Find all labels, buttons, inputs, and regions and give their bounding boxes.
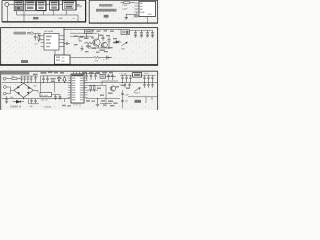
title text <box>1 72 29 75</box>
pin 2 wire <box>135 5 140 7</box>
mid rail wire <box>70 32 97 34</box>
svg-text:760s: 760s <box>121 48 125 50</box>
capacitor C1 <box>34 33 37 40</box>
transistor Q3 <box>110 86 115 91</box>
svg-text:0-10K: 0-10K <box>122 8 128 10</box>
junction dots <box>21 73 145 99</box>
wire down into U7 <box>54 51 56 56</box>
wire vertical mid <box>54 83 56 93</box>
resistor R3 <box>84 42 95 44</box>
wire U2 down <box>23 11 25 22</box>
IC U5 (DS1820) <box>139 1 156 16</box>
wire U1 down <box>16 11 18 15</box>
wire stub right2 <box>151 97 153 100</box>
svg-text:GND: GND <box>58 18 63 20</box>
MCU right pins <box>84 78 88 97</box>
caption figure number <box>104 15 109 18</box>
label cluster <box>84 35 113 51</box>
svg-text:VDD: VDD <box>148 14 153 16</box>
block U1 (preamp) <box>14 1 23 11</box>
wire segs cluster2 <box>70 36 109 49</box>
label cluster mid <box>51 78 67 83</box>
capacitor C35 <box>27 76 29 83</box>
capacitor C45 <box>151 75 153 82</box>
U6 pin wires right <box>59 36 64 47</box>
wire X2 down <box>86 33 88 38</box>
wire seg <box>106 75 116 77</box>
diode D6 <box>114 41 122 44</box>
wire mic down <box>6 6 8 21</box>
regulator U8 7805 <box>40 92 52 97</box>
svg-text:VMI: VMI <box>61 61 65 63</box>
wire J2b to bridge <box>6 90 10 93</box>
component X2 box on rail <box>85 30 93 34</box>
wire lower right <box>128 96 158 98</box>
capacitor bank C6 <box>140 30 143 38</box>
svg-text:Mx: Mx <box>30 106 33 108</box>
wire J3 right <box>6 78 12 80</box>
wire to ground <box>126 12 137 17</box>
caption of middle panel <box>21 60 28 63</box>
caption text line 2 <box>96 9 117 12</box>
capacitor C14 <box>90 74 93 80</box>
bridge rectifier D1-D4 <box>14 83 33 97</box>
diode D4 <box>27 92 30 95</box>
capacitor C46 under J2 <box>5 96 8 104</box>
pin 1 wire <box>135 2 140 4</box>
pin 4 wire <box>135 11 140 13</box>
adjust arrow 2 <box>134 88 140 92</box>
crystal Y1 <box>100 75 106 79</box>
resistor R7 <box>90 86 92 92</box>
capacitor C31 <box>121 94 124 95</box>
wire top row <box>21 75 39 77</box>
svg-text:74DLS: 74DLS <box>134 93 141 95</box>
svg-text:220: 220 <box>34 85 37 87</box>
label specks cluster2 <box>74 30 117 53</box>
panel border (middle) <box>1 28 158 65</box>
main rail <box>2 82 158 84</box>
block U2 <box>25 1 35 11</box>
thick bottom rule of middle panel <box>0 64 158 66</box>
wire stub <box>28 99 30 104</box>
wire U3-U4 <box>46 3 49 5</box>
capacitor C33 <box>20 76 22 83</box>
svg-text:1.0k: 1.0k <box>11 76 15 78</box>
transistor Q1 <box>93 33 100 48</box>
label speck <box>33 74 38 76</box>
MCU left pins <box>68 78 71 97</box>
wire U5 down <box>65 10 67 15</box>
label specks bottom <box>108 101 118 104</box>
capacitor C15 <box>107 74 110 80</box>
top rail wire <box>64 29 121 31</box>
arrow symbol <box>27 32 34 35</box>
adjust arrow <box>122 42 128 46</box>
bottom rail right <box>86 98 120 100</box>
capacitor C2 <box>64 42 70 45</box>
wire segs bottom <box>65 99 113 104</box>
capacitor bank C8 <box>151 30 154 38</box>
wire arrow to C1 <box>34 32 41 34</box>
panel bottom border thick <box>89 22 158 24</box>
ground G2 <box>96 99 100 107</box>
label specks bottom2 <box>62 100 115 106</box>
svg-text:84.9CB: 84.9CB <box>41 95 48 97</box>
vertical bus wire <box>63 28 65 54</box>
MCU top wires <box>74 71 80 74</box>
capacitor C38 <box>59 95 62 100</box>
wire U2-U3 <box>35 3 36 5</box>
ground bus wire <box>17 14 78 16</box>
wire X1 right <box>129 29 152 31</box>
IC U7 <box>55 55 71 64</box>
capacitor C13 <box>85 74 88 80</box>
svg-text:1N4004: 1N4004 <box>44 107 52 109</box>
capacitor C34 <box>24 76 26 83</box>
capacitor C36 <box>30 76 32 83</box>
AC connector J2 <box>3 86 6 89</box>
caption fig5 <box>135 100 142 103</box>
wire rail down <box>40 76 42 93</box>
mid rail <box>41 75 72 77</box>
panel bottom border thick <box>2 21 86 23</box>
caption text line 1 <box>99 4 113 7</box>
resistor R6 <box>64 76 66 83</box>
capacitor bank C7 <box>146 30 149 38</box>
svg-text:SDA: SDA <box>140 11 145 14</box>
label specks right <box>121 85 131 89</box>
resistor R9 <box>58 76 60 83</box>
input jack J3 <box>3 77 6 80</box>
pin circles <box>39 35 40 36</box>
wire U1-U2 <box>23 3 25 5</box>
svg-text:Tu+0k: Tu+0k <box>144 73 149 75</box>
capacitor C39 <box>42 76 45 83</box>
MCU bottom stubs <box>74 103 80 106</box>
capacitor C37 <box>34 76 36 83</box>
diode D5 <box>13 100 25 103</box>
block U5 <box>63 1 77 10</box>
label specks mid <box>97 86 119 96</box>
panel border (top-left block diagram) <box>2 0 86 22</box>
transistor Q2 <box>102 42 108 48</box>
capacitor C18 <box>147 75 149 82</box>
wire bus right end down <box>77 15 79 22</box>
panel right border thick <box>85 0 87 22</box>
capacitor C3 <box>102 35 105 42</box>
wire bridge right <box>33 90 38 92</box>
resistor R1 (pull-up) <box>121 2 135 4</box>
capacitor C23 <box>54 95 57 100</box>
capacitor C26 <box>124 83 126 88</box>
capacitor C48 <box>34 99 36 104</box>
panel border (top-right) <box>89 0 157 23</box>
wire mic to amp <box>9 3 14 5</box>
net label row A <box>41 72 114 74</box>
svg-text:401: 401 <box>83 88 86 90</box>
pin 3 wire <box>135 8 140 10</box>
wire U4 down <box>52 10 54 15</box>
capacitor C32 <box>121 100 124 101</box>
capacitor C27 <box>128 83 130 88</box>
microphone input J1 <box>5 2 9 6</box>
vertical wire left col <box>122 90 124 108</box>
wire J2a to bridge <box>6 87 14 90</box>
IC U6 (MC34063) <box>44 33 59 50</box>
svg-text:1N4004 ×4: 1N4004 ×4 <box>10 105 22 108</box>
capacitor C42 <box>121 75 123 82</box>
input label text <box>14 32 27 35</box>
MCU U9 <box>71 74 84 103</box>
wire bridge bottom down <box>23 98 25 99</box>
wire U7 out <box>70 56 94 58</box>
capacitor C44 <box>129 75 131 82</box>
capacitor C29 <box>147 83 149 88</box>
wire below IC <box>147 17 149 23</box>
wire U5 right to node MN1 <box>76 3 80 5</box>
resistor R8 <box>94 86 96 92</box>
ground <box>124 18 128 20</box>
diode D3 <box>18 92 21 95</box>
component X1 box <box>121 30 129 35</box>
label blob <box>33 17 39 19</box>
wire U8 out <box>52 94 61 96</box>
resistor R4 <box>94 56 112 58</box>
wire U4-U5 <box>59 3 63 5</box>
wire bridge top up <box>23 82 25 85</box>
resistor R2 <box>38 33 40 42</box>
mid web wires <box>88 81 119 99</box>
capacitor C4 <box>108 37 111 45</box>
svg-text:2-10K: 2-10K <box>122 5 128 7</box>
capacitor C41 <box>94 74 97 80</box>
svg-text:104 +10: 104 +10 <box>41 99 48 101</box>
wire K1 row <box>120 74 133 76</box>
cap row wire <box>80 73 100 75</box>
block U3 <box>37 1 47 11</box>
U6 pin wires left <box>41 36 44 47</box>
bottom rail <box>2 98 70 100</box>
capacitor bank C5 <box>134 30 137 38</box>
capacitor C40 <box>46 76 49 83</box>
capacitor C30 <box>151 83 153 88</box>
diode D2 <box>27 86 30 89</box>
capacitor C16 <box>111 74 114 80</box>
capacitor C9 <box>107 56 111 60</box>
diode D1 <box>17 86 20 89</box>
svg-text:MC34063: MC34063 <box>44 31 54 33</box>
capacitor C28 <box>143 83 145 88</box>
label VM blob <box>134 15 139 18</box>
wire U3 down <box>43 11 45 15</box>
capacitor C43 <box>125 75 127 82</box>
bottom panel border <box>1 71 158 110</box>
wire stub right <box>145 97 147 103</box>
resistor R5 <box>12 78 21 80</box>
capacitor C17 <box>143 75 145 82</box>
block U4 <box>50 1 59 11</box>
relay K1 box <box>133 73 142 78</box>
ground G3 <box>80 46 83 51</box>
capacitor C47 <box>30 99 32 104</box>
svg-text:MN1: MN1 <box>77 5 83 8</box>
